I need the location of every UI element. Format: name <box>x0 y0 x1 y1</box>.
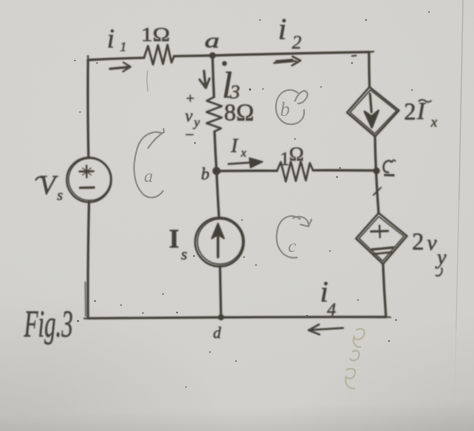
node b <box>212 167 220 175</box>
wire: node b to R2 <box>217 170 278 173</box>
2vy minus inside <box>372 248 393 250</box>
wire: bottom <box>88 317 386 318</box>
source Is circle <box>195 218 244 267</box>
node c <box>373 167 380 174</box>
resistor R2 1ohm (middle) <box>277 161 313 181</box>
label 2Ix <box>419 100 432 102</box>
pencil loop a <box>134 132 163 197</box>
dep. source 2Ix diamond <box>347 87 399 137</box>
tick marks near top-right corner <box>352 55 356 57</box>
wire: left vertical lower <box>88 202 89 318</box>
paper edge line (right) <box>459 0 463 200</box>
faint yellow pencil scribbles bottom right <box>346 329 365 389</box>
photocopy specks <box>74 11 430 387</box>
wire: top right segment through node a <box>174 52 369 56</box>
node a <box>209 52 216 59</box>
dep. source 2vy diamond <box>356 213 407 264</box>
wire: node c to 2vy diamond <box>376 171 379 214</box>
2vy plus inside <box>371 230 388 233</box>
label c <box>384 161 393 173</box>
faint pencil streak <box>147 71 148 91</box>
current arrow i1 <box>110 67 130 69</box>
node d <box>218 314 224 320</box>
Vs minus <box>80 186 94 189</box>
wire: R3 to node b <box>215 132 217 172</box>
2Ix arrow inside (down) <box>370 94 372 112</box>
wire: left vertical upper <box>87 60 90 158</box>
resistor R1 1ohm (top) <box>144 45 174 65</box>
current arrow i2 <box>274 60 296 63</box>
current arrow i3 (down) <box>204 71 205 84</box>
wire: node a down to R3 <box>213 56 215 98</box>
pencil loop c <box>277 216 300 258</box>
wire: 2vy to bottom right corner <box>383 264 386 317</box>
source Vs circle <box>67 158 112 203</box>
Vs plus <box>80 170 94 172</box>
corner stub top-left <box>87 56 89 60</box>
wire: top left segment <box>88 58 144 60</box>
resistor R3 8ohm (vertical) <box>207 97 222 132</box>
wire: diamond to node c <box>375 137 376 171</box>
wire: corner overshoot bottom-right <box>386 316 391 318</box>
wire: R2 to node c <box>313 169 376 172</box>
current arrow i4 (left) <box>310 328 343 330</box>
wire: Is to node d <box>220 267 221 318</box>
Is arrow (up) <box>217 234 220 257</box>
wire: node b down to Is <box>217 171 220 218</box>
current arrow Ix <box>229 162 256 164</box>
pencil loop b <box>276 90 304 124</box>
label Vs <box>36 177 44 181</box>
corner overshoot bottom-left <box>84 317 88 319</box>
pen slip tick on wire <box>374 188 382 196</box>
wire: right top vertical to diamond <box>368 52 371 87</box>
